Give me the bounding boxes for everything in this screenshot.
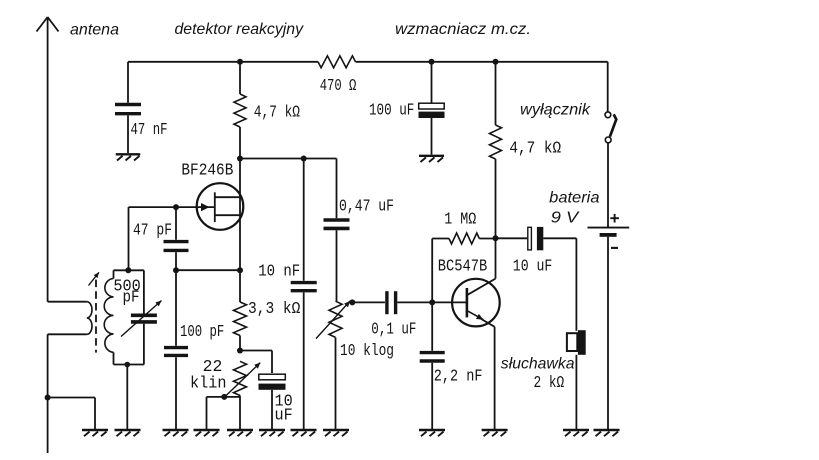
resistor 4.7k (collector) xyxy=(490,62,502,239)
svg-text:antena: antena xyxy=(70,22,119,39)
svg-text:47 pF: 47 pF xyxy=(133,222,172,241)
capacitor 0.47uF xyxy=(324,220,350,301)
capacitor 47pF xyxy=(164,207,189,270)
inductor L2 secondary xyxy=(104,270,113,364)
label 2,2nF xyxy=(434,368,483,387)
svg-text:0,47 uF: 0,47 uF xyxy=(339,198,394,217)
svg-text:wyłącznik: wyłącznik xyxy=(520,102,591,119)
core adjust arrow xyxy=(89,272,100,285)
wire gate lower row xyxy=(176,269,240,271)
label 1 MOhm xyxy=(444,211,476,230)
capacitor 10uF bypass (electrolytic) xyxy=(259,374,286,430)
svg-text:3,3 kΩ: 3,3 kΩ xyxy=(248,300,300,319)
label antena xyxy=(70,22,119,39)
node antenna-ground junction xyxy=(45,395,51,401)
wire switch to battery xyxy=(607,143,609,227)
node top rail 100uF xyxy=(429,59,435,65)
svg-text:bateria: bateria xyxy=(549,190,599,207)
capacitor C1 500pF variable xyxy=(121,270,162,364)
node collector xyxy=(493,235,499,241)
svg-text:0,1 uF: 0,1 uF xyxy=(371,321,416,340)
label 10 (bypass) xyxy=(275,393,293,412)
wire top rail right xyxy=(432,61,608,63)
ground 10uF bypass xyxy=(259,430,285,436)
wire antenna to ground branch xyxy=(48,398,95,431)
transformer core (dashed) xyxy=(95,280,97,353)
svg-text:BF246B: BF246B xyxy=(181,162,233,181)
capacitor 2.2nF xyxy=(420,302,445,430)
svg-text:4,7 kΩ: 4,7 kΩ xyxy=(509,140,561,159)
svg-text:uF: uF xyxy=(275,407,293,426)
label 47pF xyxy=(133,222,172,241)
wire wiper to 0.1uF xyxy=(352,301,385,303)
wire 10uF to earphone xyxy=(543,238,576,330)
label 100pF xyxy=(180,323,224,342)
node top rail 4.7k xyxy=(237,59,243,65)
battery 9V xyxy=(588,228,630,430)
label 0,1uF xyxy=(371,321,416,340)
transistor BC547B (NPN) xyxy=(432,238,500,430)
svg-text:47 nF: 47 nF xyxy=(131,121,168,140)
node wiper 22k xyxy=(221,394,227,400)
node source row xyxy=(237,267,243,273)
wire drain row xyxy=(240,158,337,160)
switch wylacznik xyxy=(605,112,616,143)
svg-text:klin: klin xyxy=(190,375,227,394)
resistor 1M xyxy=(432,233,495,302)
node tank bottom junction xyxy=(125,362,131,368)
node gate junction xyxy=(173,204,179,210)
inductor L1 primary xyxy=(48,302,92,335)
ground earphone xyxy=(563,430,589,436)
label detektor reakcyjny xyxy=(175,21,304,38)
ground 100pF xyxy=(163,430,189,436)
node wiper 10k xyxy=(349,299,355,305)
label wzmacniacz m.cz. xyxy=(395,21,531,38)
svg-text:4,7 kΩ: 4,7 kΩ xyxy=(254,104,300,123)
label 3,3 kOhm xyxy=(248,300,300,319)
wire top rail left xyxy=(128,61,318,63)
ground 10k log xyxy=(323,430,349,436)
wire rail to switch xyxy=(607,62,609,112)
wire antenna lower segment xyxy=(47,334,49,453)
wire top rail mid xyxy=(356,61,432,63)
label 22 xyxy=(203,358,223,377)
label 9 V xyxy=(551,210,580,227)
label 10uF output xyxy=(513,258,553,277)
ground 22k xyxy=(227,430,253,436)
label BC547B xyxy=(438,258,488,277)
ground tank xyxy=(115,430,141,436)
wire gate drop xyxy=(128,207,130,270)
potentiometer 22k lin xyxy=(224,361,260,430)
capacitor 0.1uF xyxy=(387,291,396,314)
svg-text:2 kΩ: 2 kΩ xyxy=(534,374,565,393)
label 47nF xyxy=(131,121,168,140)
svg-text:10 klog: 10 klog xyxy=(340,342,394,361)
wire collector to 10uF xyxy=(496,237,528,239)
ground 100uF xyxy=(419,156,444,162)
label 100uF xyxy=(369,102,414,121)
node 3.3k bottom xyxy=(237,348,243,354)
svg-text:9 V: 9 V xyxy=(551,210,580,227)
node top rail 4.7k right xyxy=(493,59,499,65)
svg-text:słuchawka: słuchawka xyxy=(501,356,575,373)
label bateria xyxy=(549,190,599,207)
wire tank bottom xyxy=(114,364,144,366)
potentiometer 10k log xyxy=(316,301,350,430)
node tank top junction xyxy=(125,267,131,273)
svg-text:detektor reakcyjny: detektor reakcyjny xyxy=(175,21,304,38)
svg-text:100 uF: 100 uF xyxy=(369,102,414,121)
svg-text:10 nF: 10 nF xyxy=(258,263,300,282)
label 10klog xyxy=(340,342,394,361)
label 4,7 kOhm right xyxy=(509,140,561,159)
wire tank top xyxy=(114,269,144,271)
resistor 470R xyxy=(318,56,356,68)
svg-text:wzmacniacz m.cz.: wzmacniacz m.cz. xyxy=(395,21,531,38)
wire drain row corner xyxy=(336,159,338,219)
label sluchawka xyxy=(501,356,575,373)
node drain 10nF branch xyxy=(301,156,307,162)
label 4,7 kOhm left xyxy=(254,104,300,123)
capacitor 100uF (electrolytic) xyxy=(419,62,445,155)
wire source bypass xyxy=(240,351,272,374)
label 10nF xyxy=(258,263,300,282)
transistor BF246B (JFET) xyxy=(129,159,244,271)
label BF246B xyxy=(181,162,233,181)
ground 2.2nF xyxy=(419,430,445,436)
label 470 Ohm xyxy=(320,77,357,96)
label 0,47uF xyxy=(339,198,394,217)
ground 10nF xyxy=(291,430,317,436)
battery plus sign xyxy=(610,214,619,223)
battery minus sign xyxy=(611,247,618,249)
capacitor 10uF output (electrolytic) xyxy=(528,227,544,250)
svg-text:10 uF: 10 uF xyxy=(513,258,553,277)
label 2 kOhm xyxy=(534,374,565,393)
svg-text:pF: pF xyxy=(123,289,140,308)
ground battery xyxy=(594,430,620,436)
earphone symbol xyxy=(567,330,586,430)
capacitor 47nF xyxy=(115,62,141,153)
wire tank bottom to ground xyxy=(126,365,128,431)
svg-text:1 MΩ: 1 MΩ xyxy=(444,211,476,230)
ground 47nF xyxy=(116,154,141,160)
svg-text:470 Ω: 470 Ω xyxy=(320,77,357,96)
node drain xyxy=(237,156,243,162)
svg-text:BC547B: BC547B xyxy=(438,258,488,277)
capacitor 10nF xyxy=(291,159,317,431)
ground emitter xyxy=(482,430,508,436)
label pF xyxy=(123,289,140,308)
svg-text:100 pF: 100 pF xyxy=(180,323,224,342)
label wylacznik xyxy=(520,102,591,119)
antenna symbol xyxy=(37,17,59,302)
resistor 4.7k (drain) xyxy=(234,62,246,159)
wire 0.1uF to base xyxy=(397,301,432,303)
resistor 3.3k xyxy=(234,270,247,350)
label uF (bypass) xyxy=(275,407,293,426)
label klin xyxy=(190,375,227,394)
svg-text:2,2 nF: 2,2 nF xyxy=(434,368,483,387)
ground antenna xyxy=(82,430,108,436)
wire wiper 22k xyxy=(207,397,241,430)
capacitor 100pF xyxy=(164,270,188,430)
node 47pF bottom xyxy=(173,267,179,273)
node base xyxy=(429,299,435,305)
ground wiper 22k xyxy=(194,430,220,436)
label 500 xyxy=(113,278,140,297)
